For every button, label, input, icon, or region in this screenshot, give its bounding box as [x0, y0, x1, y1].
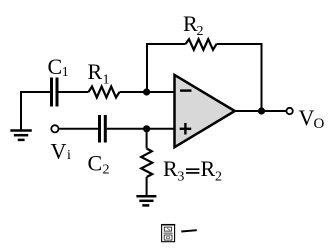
svg-text:1: 1	[103, 73, 110, 88]
svg-text:R: R	[88, 59, 103, 84]
svg-text:2: 2	[197, 24, 204, 39]
svg-text:O: O	[314, 116, 325, 132]
svg-text:V: V	[299, 105, 315, 130]
svg-text:C: C	[88, 151, 103, 176]
svg-text:R: R	[163, 156, 178, 181]
svg-text:V: V	[51, 139, 67, 164]
svg-text:3: 3	[177, 170, 184, 185]
svg-text:i: i	[67, 148, 71, 163]
svg-text:2: 2	[215, 170, 222, 185]
svg-text:2: 2	[103, 163, 110, 178]
svg-text:R: R	[201, 156, 216, 181]
svg-text:C: C	[48, 54, 63, 79]
svg-text:1: 1	[62, 65, 69, 80]
